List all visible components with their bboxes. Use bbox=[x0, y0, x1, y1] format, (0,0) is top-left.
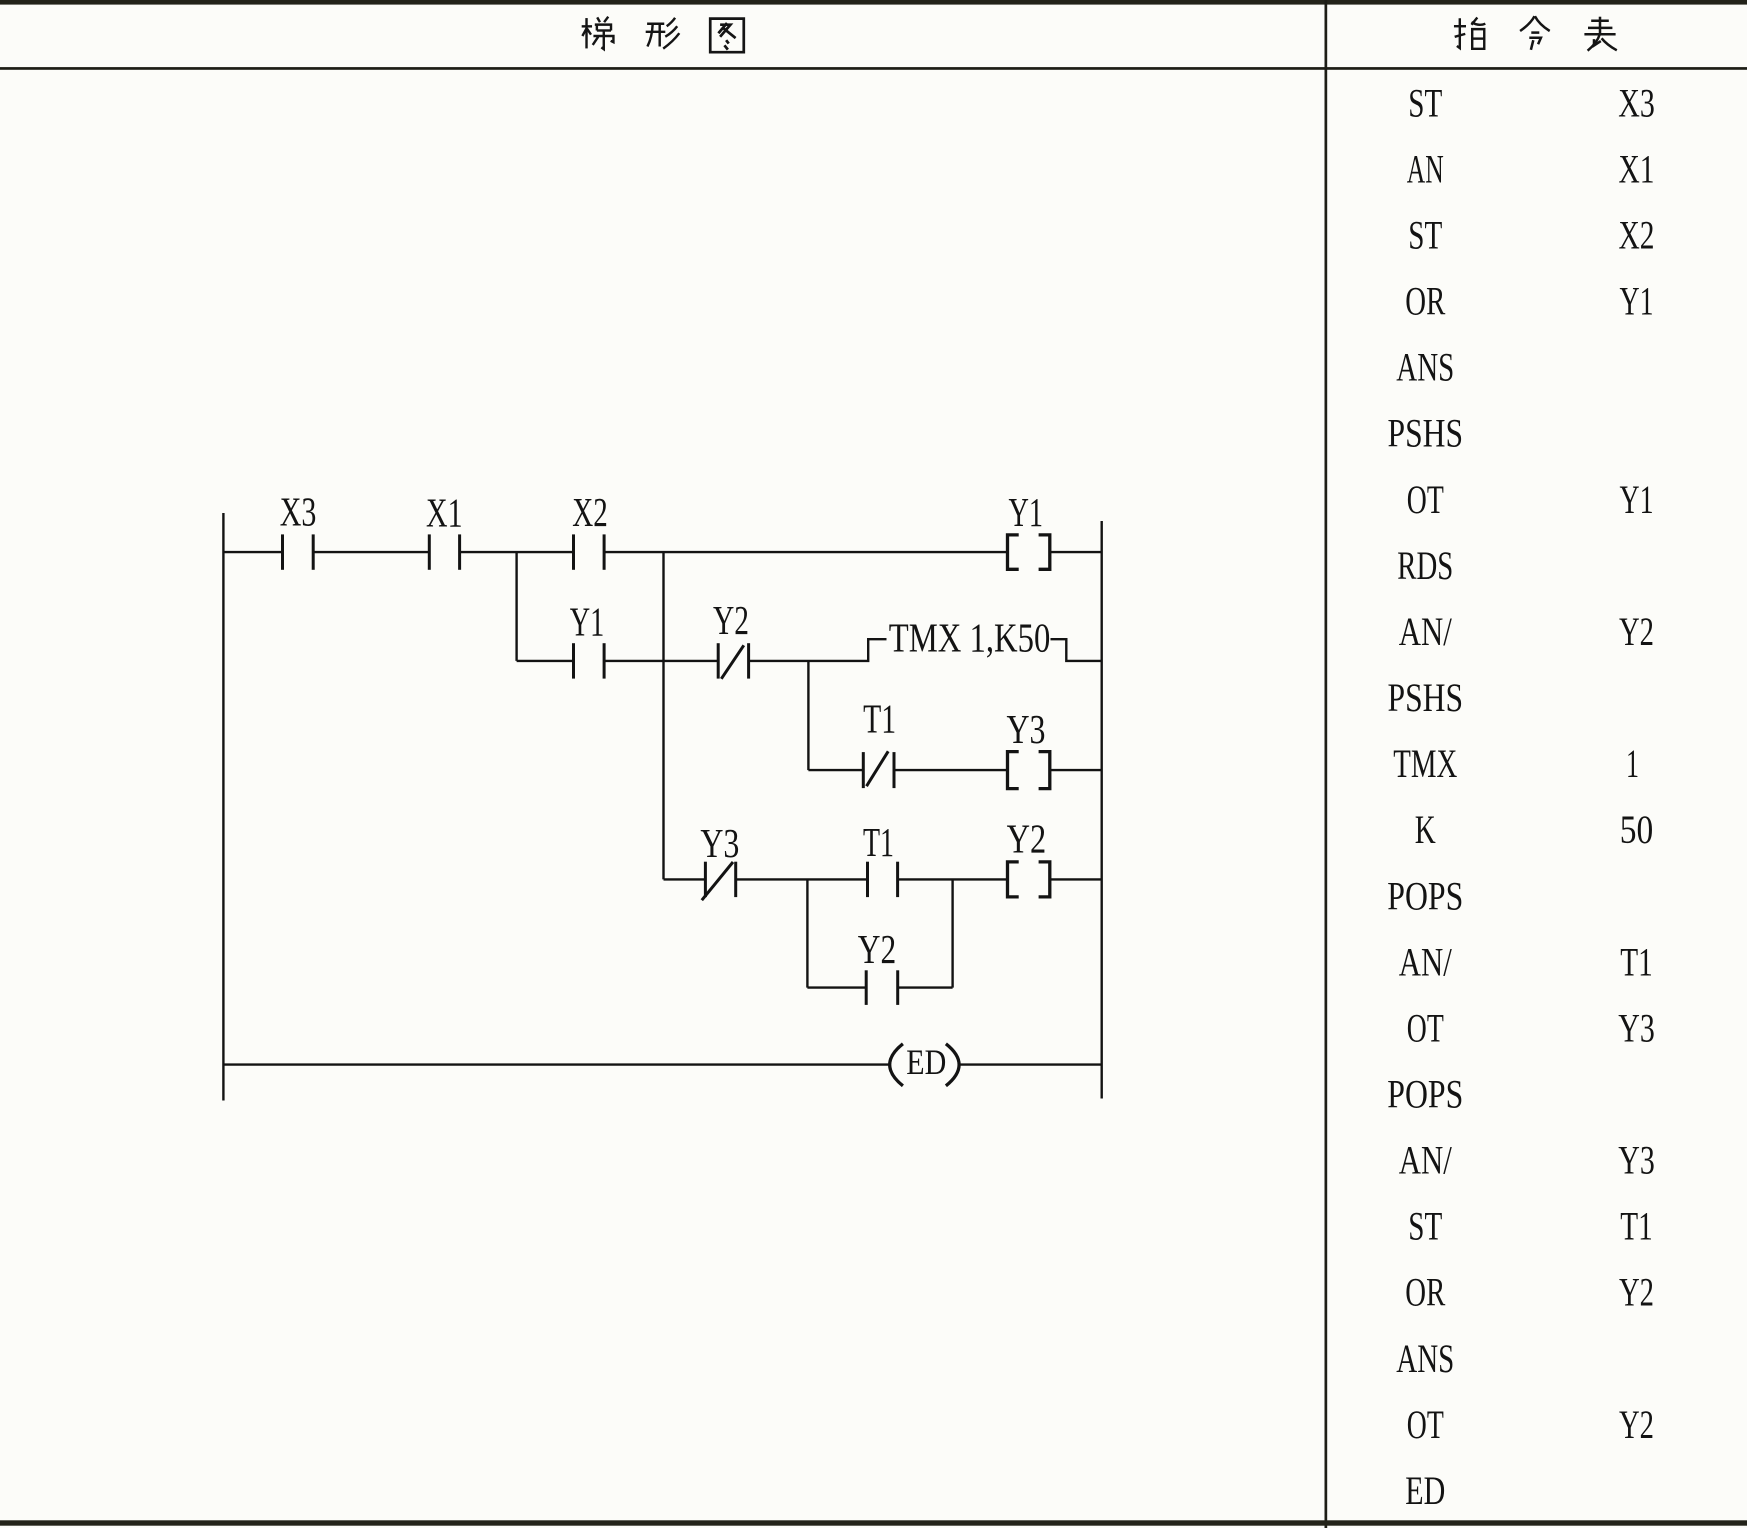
svg-text:PSHS: PSHS bbox=[1388, 675, 1464, 720]
svg-text:Y3: Y3 bbox=[1007, 706, 1046, 752]
svg-text:OT: OT bbox=[1407, 477, 1444, 522]
svg-text:X1: X1 bbox=[426, 490, 463, 536]
svg-text:ST: ST bbox=[1408, 213, 1442, 258]
svg-text:OT: OT bbox=[1407, 1402, 1444, 1447]
svg-text:TMX 1,K50: TMX 1,K50 bbox=[889, 615, 1051, 661]
svg-text:OT: OT bbox=[1407, 1005, 1444, 1050]
svg-text:AN/: AN/ bbox=[1399, 609, 1453, 654]
svg-text:ED: ED bbox=[1405, 1468, 1445, 1513]
svg-text:Y2: Y2 bbox=[713, 597, 749, 643]
svg-text:Y1: Y1 bbox=[1009, 489, 1044, 535]
svg-text:TMX: TMX bbox=[1393, 741, 1457, 786]
svg-text:OR: OR bbox=[1405, 1270, 1445, 1315]
svg-text:ANS: ANS bbox=[1396, 345, 1454, 390]
svg-text:Y2: Y2 bbox=[1007, 816, 1047, 862]
svg-text:X3: X3 bbox=[1618, 80, 1655, 125]
svg-text:Y2: Y2 bbox=[858, 926, 896, 972]
svg-text:T1: T1 bbox=[863, 696, 896, 742]
svg-text:Y3: Y3 bbox=[1618, 1138, 1655, 1183]
svg-text:RDS: RDS bbox=[1397, 543, 1453, 588]
svg-text:X2: X2 bbox=[1619, 213, 1655, 258]
svg-text:T1: T1 bbox=[863, 819, 894, 865]
svg-text:50: 50 bbox=[1620, 807, 1654, 852]
svg-text:X2: X2 bbox=[572, 489, 608, 535]
svg-text:ANS: ANS bbox=[1396, 1336, 1454, 1381]
svg-text:1: 1 bbox=[1626, 741, 1639, 786]
svg-text:ST: ST bbox=[1408, 1204, 1442, 1249]
svg-text:OR: OR bbox=[1405, 279, 1445, 324]
svg-text:X3: X3 bbox=[280, 489, 317, 535]
svg-text:AN/: AN/ bbox=[1399, 1138, 1453, 1183]
svg-text:Y2: Y2 bbox=[1619, 1270, 1654, 1315]
svg-text:Y3: Y3 bbox=[1618, 1005, 1655, 1050]
svg-text:Y3: Y3 bbox=[700, 820, 739, 866]
svg-text:K: K bbox=[1415, 807, 1436, 852]
svg-text:T1: T1 bbox=[1620, 939, 1653, 984]
svg-text:T1: T1 bbox=[1620, 1204, 1653, 1249]
svg-text:AN: AN bbox=[1407, 146, 1444, 191]
svg-text:Y2: Y2 bbox=[1619, 609, 1654, 654]
svg-text:X1: X1 bbox=[1619, 146, 1655, 191]
svg-text:ED: ED bbox=[906, 1042, 946, 1082]
svg-text:AN/: AN/ bbox=[1399, 939, 1453, 984]
svg-text:POPS: POPS bbox=[1387, 873, 1463, 918]
svg-text:POPS: POPS bbox=[1387, 1072, 1463, 1117]
svg-text:Y1: Y1 bbox=[1620, 279, 1654, 324]
svg-text:PSHS: PSHS bbox=[1388, 411, 1464, 456]
svg-text:Y1: Y1 bbox=[1620, 477, 1654, 522]
svg-text:Y2: Y2 bbox=[1619, 1402, 1654, 1447]
svg-text:Y1: Y1 bbox=[570, 599, 605, 645]
svg-text:ST: ST bbox=[1408, 80, 1442, 125]
